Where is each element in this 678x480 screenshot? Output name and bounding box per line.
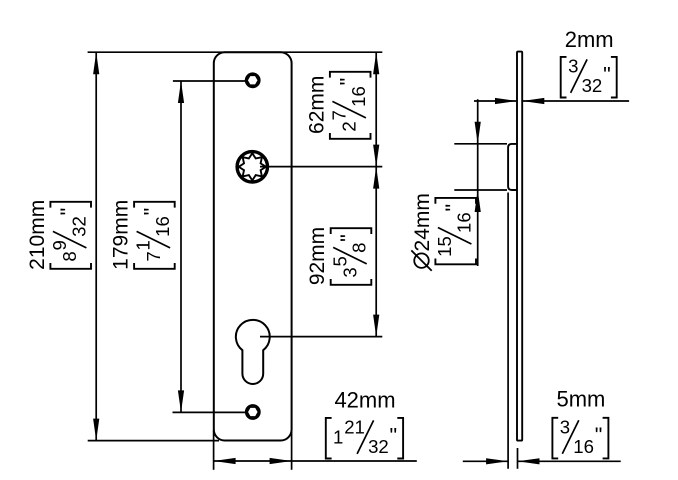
- svg-text:3: 3: [568, 56, 578, 77]
- svg-text:179mm: 179mm: [110, 200, 133, 270]
- svg-text:": ": [441, 204, 465, 212]
- svg-text:": ": [595, 423, 603, 447]
- svg-text:2mm: 2mm: [565, 27, 614, 52]
- svg-text:8: 8: [349, 243, 370, 253]
- svg-text:9: 9: [49, 240, 70, 250]
- svg-text:62mm: 62mm: [305, 76, 328, 134]
- svg-text:24mm: 24mm: [411, 193, 434, 251]
- svg-text:": ": [336, 234, 360, 242]
- svg-text:": ": [56, 208, 80, 216]
- svg-text:": ": [335, 78, 359, 86]
- svg-text:32: 32: [368, 436, 389, 457]
- svg-text:": ": [390, 423, 398, 447]
- svg-text:16: 16: [348, 86, 369, 107]
- svg-text:32: 32: [68, 216, 89, 237]
- svg-text:92mm: 92mm: [306, 227, 329, 285]
- svg-text:": ": [140, 208, 164, 216]
- svg-text:1: 1: [333, 427, 343, 448]
- svg-text:16: 16: [573, 436, 594, 457]
- svg-text:3: 3: [340, 267, 361, 277]
- svg-text:2: 2: [339, 121, 360, 131]
- svg-text:42mm: 42mm: [334, 388, 395, 413]
- svg-text:32: 32: [582, 75, 603, 96]
- svg-text:": ": [603, 62, 611, 86]
- svg-text:5mm: 5mm: [556, 387, 605, 412]
- svg-text:8: 8: [59, 251, 80, 261]
- svg-text:210mm: 210mm: [26, 200, 49, 270]
- svg-text:1: 1: [133, 240, 154, 250]
- svg-text:7: 7: [143, 251, 164, 261]
- svg-text:16: 16: [152, 216, 173, 237]
- svg-text:5: 5: [329, 256, 350, 266]
- svg-text:3: 3: [560, 416, 570, 437]
- svg-text:7: 7: [329, 110, 350, 120]
- svg-text:16: 16: [453, 212, 474, 233]
- svg-text:15: 15: [434, 236, 455, 257]
- svg-text:21: 21: [344, 417, 365, 438]
